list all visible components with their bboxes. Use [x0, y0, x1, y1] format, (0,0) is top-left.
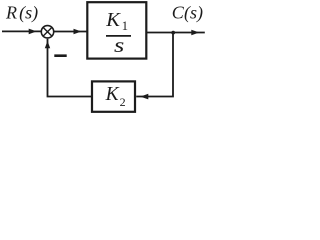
svg-text:K: K	[105, 9, 121, 31]
svg-text:1: 1	[122, 19, 128, 33]
svg-text:s: s	[114, 33, 124, 57]
svg-text:(s): (s)	[19, 3, 38, 24]
svg-text:(s): (s)	[184, 3, 203, 24]
svg-text:K: K	[105, 84, 120, 105]
svg-text:2: 2	[120, 95, 126, 109]
svg-text:C: C	[172, 3, 185, 23]
svg-text:R: R	[5, 3, 17, 23]
